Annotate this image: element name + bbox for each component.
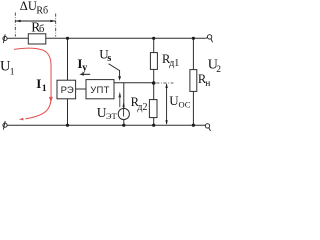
svg-text:б: б (39, 24, 44, 35)
svg-text:Rб: Rб (36, 5, 48, 16)
svg-text:ЭТ: ЭТ (106, 111, 118, 121)
svg-text:1: 1 (42, 84, 47, 94)
svg-text:н: н (205, 79, 210, 89)
svg-text:д2: д2 (137, 102, 147, 113)
svg-text:у: у (82, 63, 87, 74)
svg-text:2: 2 (216, 65, 221, 75)
svg-text:I: I (36, 76, 41, 91)
svg-text:s: s (107, 53, 111, 64)
svg-text:УПТ: УПТ (90, 85, 110, 96)
svg-text:РЭ: РЭ (61, 85, 74, 96)
svg-text:д1: д1 (169, 58, 179, 69)
svg-text:ΔU: ΔU (20, 0, 37, 13)
svg-text:ОС: ОС (179, 99, 191, 109)
svg-text:1: 1 (10, 67, 15, 77)
